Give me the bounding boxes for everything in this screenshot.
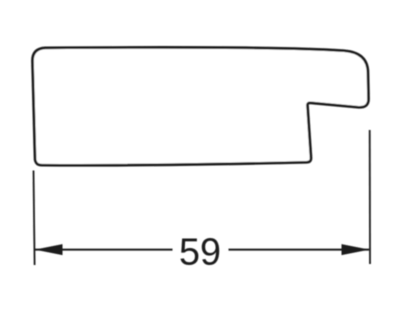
svg-text:59: 59	[179, 232, 221, 274]
left extension line	[34, 171, 35, 266]
right extension line	[369, 130, 371, 264]
dimension line left segment	[35, 249, 173, 251]
dimension line right segment	[229, 249, 370, 251]
right arrowhead	[342, 244, 370, 255]
moulding profile outline	[32, 47, 368, 165]
left arrowhead	[35, 244, 63, 255]
